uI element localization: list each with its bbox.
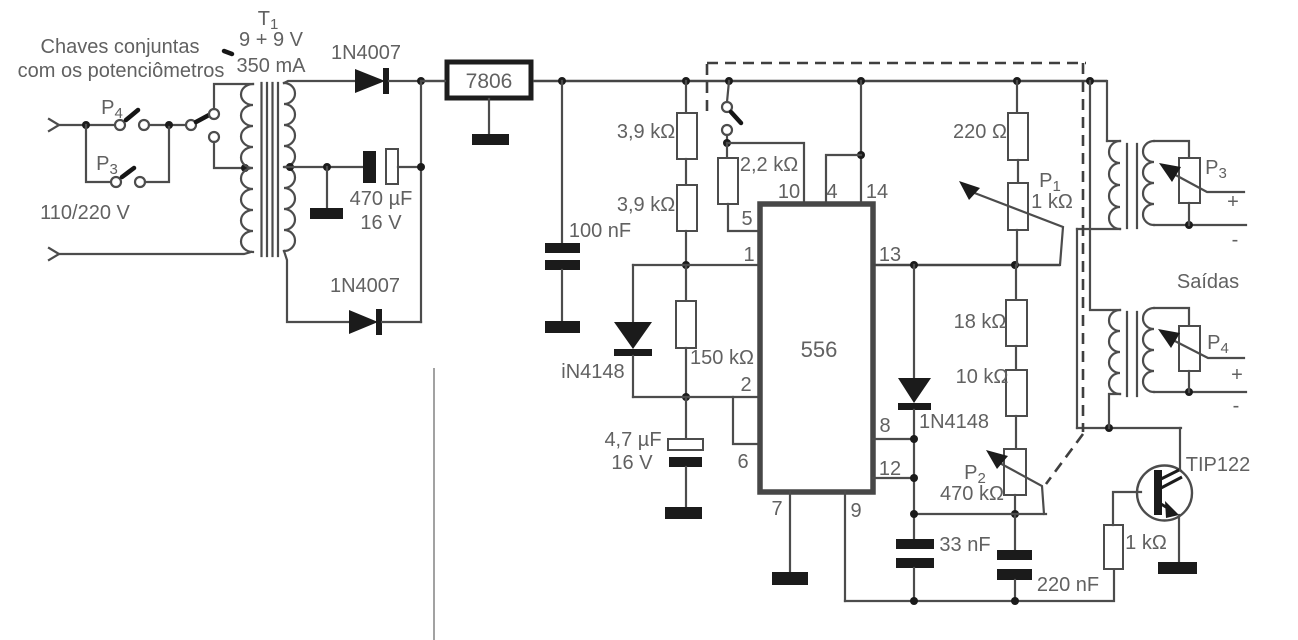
capacitor C4 33nF xyxy=(896,539,934,549)
svg-text:110/220 V: 110/220 V xyxy=(40,202,130,224)
dashed gang line vertical at switch xyxy=(706,64,709,118)
wire pin 9 xyxy=(844,492,846,601)
node rail at on-off switch xyxy=(725,77,733,85)
node rail at pins 4-14 xyxy=(857,77,865,85)
svg-text:P4: P4 xyxy=(1207,332,1229,357)
svg-text:556: 556 xyxy=(801,337,838,362)
svg-text:P3: P3 xyxy=(96,153,118,178)
node ground branch at center tap xyxy=(323,163,331,171)
svg-text:14: 14 xyxy=(866,181,888,203)
node pin 2 junction xyxy=(682,393,690,401)
svg-text:7806: 7806 xyxy=(466,70,513,93)
wire pins 4 and 14 to rail xyxy=(860,81,862,204)
wire diode D2 to raw DC bus xyxy=(382,321,421,323)
svg-text:+: + xyxy=(1227,191,1239,213)
wire pin 2 to pin 6 xyxy=(733,397,760,444)
ground center tap xyxy=(326,167,328,208)
node collector bus at lower primary xyxy=(1105,424,1113,432)
svg-text:TIP122: TIP122 xyxy=(1186,454,1250,476)
wire rail to upper output transformer xyxy=(1106,81,1108,141)
resistor R3 150 kohm xyxy=(685,265,687,301)
wire T2 secondary top to P3 xyxy=(1154,141,1189,158)
diode D4 1N4148 right xyxy=(913,265,915,378)
svg-text:1N4007: 1N4007 xyxy=(330,275,400,297)
pin 7 ground xyxy=(789,492,791,572)
transformer T3 secondary winding xyxy=(1143,308,1154,392)
wire R8 to base xyxy=(1113,492,1141,525)
node rail at output transformer feed xyxy=(1086,77,1094,85)
svg-text:1N4007: 1N4007 xyxy=(331,42,401,64)
svg-text:-: - xyxy=(1233,395,1240,417)
wire P4 bottom xyxy=(1188,371,1190,392)
transformer T3 primary winding xyxy=(1109,310,1120,394)
resistor R1 3,9 kohm xyxy=(685,81,687,113)
wire raw DC vertical bus xyxy=(420,81,422,322)
transformer T2 primary winding xyxy=(1109,141,1120,229)
wire T2 secondary bottom xyxy=(1154,224,1246,226)
svg-text:-: - xyxy=(1232,229,1239,251)
wire R4 to pin 5 xyxy=(728,204,760,231)
node junction P3 branch return xyxy=(165,121,173,129)
pointer tick near T1 label xyxy=(224,51,232,54)
wire T3 primary bottom lead xyxy=(1109,394,1120,428)
capacitor C3 4,7uF 16V xyxy=(685,397,687,439)
potentiometer P3 wiper arrow xyxy=(1170,172,1244,192)
wire AC bottom input to T1 primary bottom xyxy=(59,252,251,254)
wire upper primary return xyxy=(1076,229,1078,428)
node pin 1 junction xyxy=(682,261,690,269)
wire R6 to R7 xyxy=(1015,346,1017,370)
wire selector top tap to T1 primary top xyxy=(214,84,253,109)
wire T1 secondary top to diode xyxy=(284,81,355,83)
wire pin 1 xyxy=(633,264,760,266)
svg-text:350 mA: 350 mA xyxy=(237,55,307,77)
svg-text:7: 7 xyxy=(771,498,782,520)
svg-text:16 V: 16 V xyxy=(611,452,653,474)
svg-text:iN4148: iN4148 xyxy=(561,361,624,383)
svg-text:9 + 9 V: 9 + 9 V xyxy=(239,29,304,51)
wire P2 net to pins 8-12 xyxy=(914,513,1046,515)
transformer T2 secondary winding xyxy=(1143,141,1154,225)
svg-text:+: + xyxy=(1231,364,1243,386)
node raw DC junction at regulator input xyxy=(417,77,425,85)
wire rail to lower output transformer xyxy=(1090,81,1120,310)
node pin13 at 18k chain xyxy=(1011,261,1019,269)
wire T3 secondary bottom xyxy=(1154,391,1246,393)
svg-text:6: 6 xyxy=(737,451,748,473)
svg-text:470 µF: 470 µF xyxy=(350,188,413,210)
wire T2 primary top lead xyxy=(1107,140,1120,142)
svg-text:2: 2 xyxy=(740,374,751,396)
ground 7806 xyxy=(488,99,490,135)
wire P2 bottom xyxy=(1014,495,1016,514)
node T3 secondary bottom at P4 xyxy=(1185,388,1193,396)
potentiometer P3 body xyxy=(1179,158,1200,203)
node AC input bottom terminal xyxy=(49,248,59,260)
resistor R5 220 ohm xyxy=(1016,81,1018,113)
resistor R2 3,9 kohm xyxy=(677,185,697,231)
wire bottom ground rail from pin 9 xyxy=(845,569,1114,601)
dashed gang line horizontal xyxy=(707,62,1086,65)
node pin13 at 1N4148 xyxy=(910,261,918,269)
node junction top input xyxy=(82,121,90,129)
resistor R7 10 kohm xyxy=(1006,370,1027,416)
node rail at 220 ohm xyxy=(1013,77,1021,85)
wire +6V rail xyxy=(533,80,1107,83)
node P2 bottom junction xyxy=(1011,510,1019,518)
wire 220 ohm to P1 xyxy=(1017,160,1019,183)
svg-text:12: 12 xyxy=(879,458,901,480)
capacitor C2 100nF xyxy=(561,81,563,243)
wire emitter to ground xyxy=(1178,515,1180,563)
svg-text:18 kΩ: 18 kΩ xyxy=(954,311,1007,333)
wire pin 13 net xyxy=(873,264,1060,267)
switch on-off (liga-desliga) xyxy=(727,81,729,102)
diode D1 1N4007 top xyxy=(355,69,385,93)
capacitor C5 220nF xyxy=(1014,514,1016,550)
svg-text:P3: P3 xyxy=(1205,157,1227,182)
svg-text:13: 13 xyxy=(879,244,901,266)
node pins 4-14 tie xyxy=(857,151,865,159)
node T2 secondary bottom at P3 xyxy=(1185,221,1193,229)
wire pin 2 xyxy=(633,396,760,398)
potentiometer P2 470k body xyxy=(1004,449,1026,495)
svg-text:Chaves conjuntas: Chaves conjuntas xyxy=(41,36,200,58)
node rail at 100nF xyxy=(558,77,566,85)
wire P1 bottom to pin13 net xyxy=(1016,230,1018,265)
svg-text:2,2 kΩ: 2,2 kΩ xyxy=(740,154,798,176)
wire AC top input xyxy=(59,124,115,126)
wire R1 to R2 xyxy=(685,159,687,185)
wire T2 primary bottom lead xyxy=(1077,228,1120,230)
wire selector bottom tap to T1 primary center tap xyxy=(214,142,243,168)
svg-text:5: 5 xyxy=(741,208,752,230)
svg-text:220 Ω: 220 Ω xyxy=(953,121,1007,143)
svg-text:1: 1 xyxy=(743,244,754,266)
svg-text:4,7 µF: 4,7 µF xyxy=(604,429,661,451)
wire pin 8 xyxy=(873,438,914,440)
transformer T2 core xyxy=(1127,144,1137,228)
svg-text:3,9 kΩ: 3,9 kΩ xyxy=(617,194,675,216)
node AC input top terminal xyxy=(49,119,59,131)
transformer T1 secondary winding xyxy=(284,83,295,251)
page fold line xyxy=(433,368,435,640)
wire P3 bottom xyxy=(1188,203,1190,225)
ground C3 xyxy=(665,507,702,519)
wire T3 secondary top to P4 xyxy=(1154,308,1189,326)
resistor R8 1 kohm base xyxy=(1104,525,1123,569)
regulator U1 7806 xyxy=(447,62,531,98)
node rail at 220nF xyxy=(1011,597,1019,605)
wire T1 secondary bottom to diode D2 xyxy=(284,251,349,322)
potentiometer P1 1k body xyxy=(1008,183,1028,230)
svg-text:9: 9 xyxy=(850,500,861,522)
ground TIP122 emitter xyxy=(1158,562,1197,574)
node raw DC at C1 xyxy=(417,163,425,171)
wire R7 to P2 xyxy=(1015,416,1017,449)
svg-text:3,9 kΩ: 3,9 kΩ xyxy=(617,121,675,143)
wire collector bus to transformer primaries xyxy=(1077,427,1181,429)
transformer T1 primary winding xyxy=(241,84,253,252)
wire R2 to pin1 node xyxy=(685,231,687,265)
svg-text:10: 10 xyxy=(778,181,800,203)
diode D2 1N4007 bottom xyxy=(349,310,378,334)
wire P3 branch xyxy=(86,125,111,182)
potentiometer P1 wiper arrow xyxy=(972,192,1063,265)
potentiometer P2 wiper arrow xyxy=(996,461,1044,514)
svg-text:4: 4 xyxy=(826,181,837,203)
svg-text:Saídas: Saídas xyxy=(1177,271,1239,293)
transformer T1 core xyxy=(262,83,279,256)
diode D3 iN4148 xyxy=(632,265,634,322)
switch P3 (mains selector contact) xyxy=(111,177,121,187)
node T1 primary center tap xyxy=(241,164,249,172)
potentiometer P4 body xyxy=(1179,326,1200,371)
wire collector xyxy=(1179,428,1181,470)
svg-text:470 kΩ: 470 kΩ xyxy=(940,483,1004,505)
node below switch xyxy=(723,139,731,147)
wire between P4 and selector xyxy=(149,124,186,126)
potentiometer P4 wiper arrow xyxy=(1169,338,1244,358)
wire pin 4 loop xyxy=(826,155,861,204)
svg-text:P4: P4 xyxy=(101,97,123,122)
ground 100nF xyxy=(545,321,580,333)
wire T1 center tap to C1 xyxy=(284,166,363,168)
svg-text:com os potenciômetros: com os potenciômetros xyxy=(18,60,225,82)
svg-text:1N4148: 1N4148 xyxy=(919,411,989,433)
resistor R4 2,2 kohm xyxy=(726,143,728,158)
svg-text:220 nF: 220 nF xyxy=(1037,574,1099,596)
transistor Q1 TIP122 xyxy=(1137,466,1192,521)
svg-text:150 kΩ: 150 kΩ xyxy=(690,347,754,369)
wire pin 12 xyxy=(873,477,914,479)
switch tap selector xyxy=(186,120,196,130)
wire switch to pin 10 xyxy=(727,143,804,204)
dashed gang line vertical right xyxy=(1082,63,1085,432)
transformer T3 core xyxy=(1127,312,1137,396)
svg-text:33 nF: 33 nF xyxy=(939,534,990,556)
capacitor C1 470uF 16V xyxy=(363,151,376,183)
svg-text:100 nF: 100 nF xyxy=(569,220,631,242)
wire 7806 input xyxy=(421,80,445,82)
switch P4 (mains selector contact) xyxy=(115,120,125,130)
svg-text:10 kΩ: 10 kΩ xyxy=(956,366,1009,388)
svg-text:1 kΩ: 1 kΩ xyxy=(1031,191,1073,213)
svg-text:8: 8 xyxy=(879,415,890,437)
svg-text:16 V: 16 V xyxy=(360,212,402,234)
svg-text:1 kΩ: 1 kΩ xyxy=(1125,532,1167,554)
node rail at 33nF xyxy=(910,597,918,605)
node T1 secondary center tap xyxy=(286,163,294,171)
resistor R6 18 kohm xyxy=(1015,265,1017,300)
dashed gang line diagonal to P2 xyxy=(1046,434,1083,484)
wire P3 to top wire xyxy=(145,127,169,182)
node rail at 3.9k chain xyxy=(682,77,690,85)
wire diode D1 to 7806 input xyxy=(389,80,445,82)
IC U2 556 xyxy=(760,204,873,492)
